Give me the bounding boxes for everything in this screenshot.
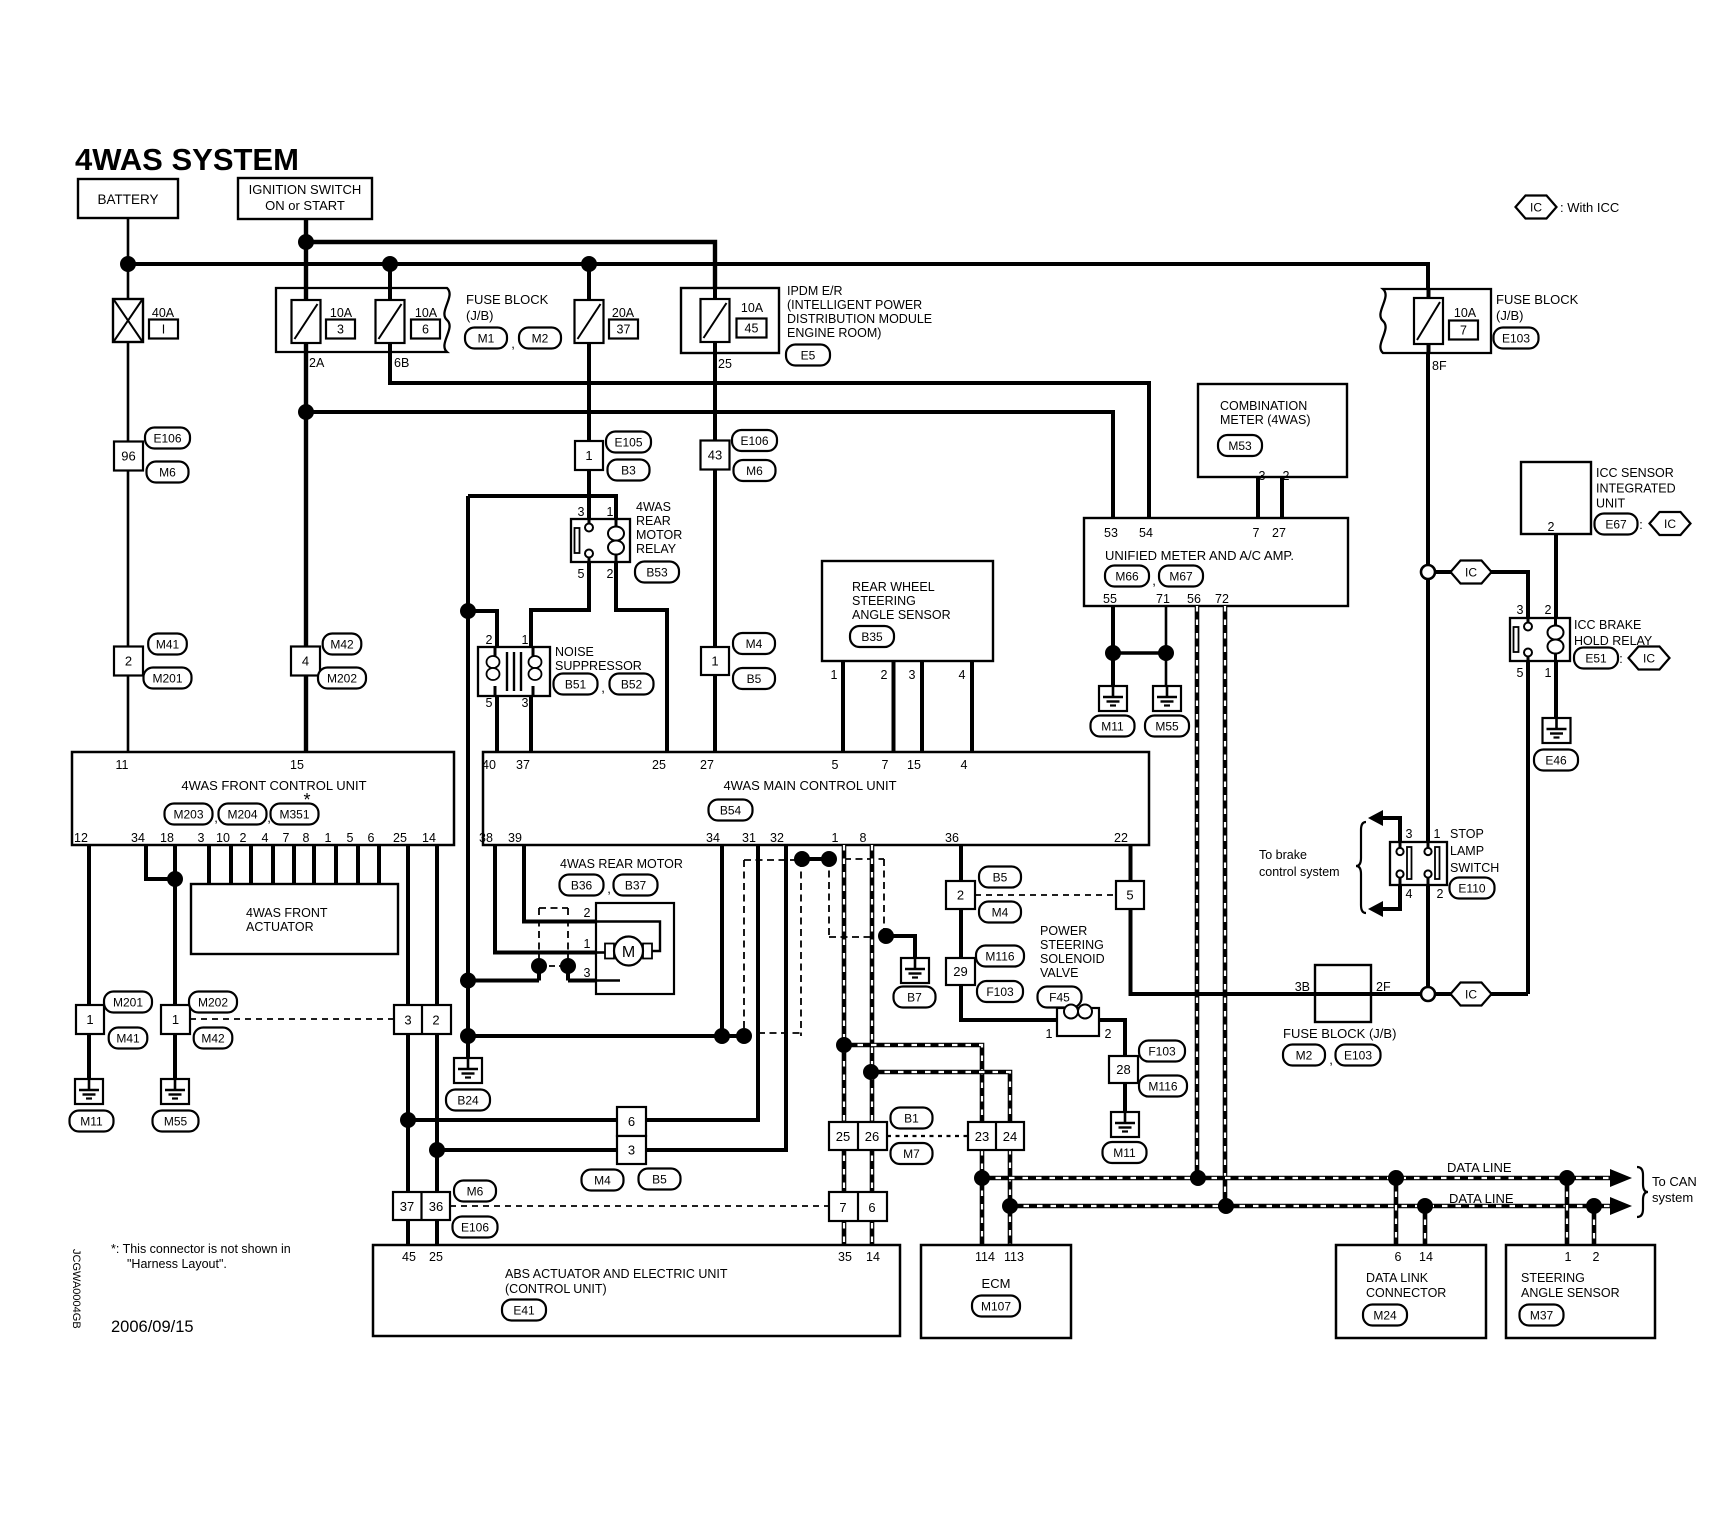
- svg-text:E46: E46: [1545, 753, 1567, 767]
- stop lamp arrow top: [1368, 810, 1400, 842]
- svg-text:2006/09/15: 2006/09/15: [111, 1318, 194, 1336]
- svg-text:1: 1: [585, 448, 592, 463]
- svg-text:4WAS FRONT CONTROL UNIT: 4WAS FRONT CONTROL UNIT: [181, 778, 366, 793]
- svg-text:E41: E41: [513, 1303, 535, 1317]
- svg-text:E51: E51: [1585, 651, 1607, 665]
- wire ignition feed vertical: [304, 219, 308, 752]
- label 6B: [394, 356, 409, 370]
- junction motor3 right: [560, 958, 576, 974]
- svg-text:1: 1: [1545, 666, 1552, 680]
- svg-text:32: 32: [770, 831, 784, 845]
- svg-text:25: 25: [652, 758, 666, 772]
- svg-text:,: ,: [607, 881, 611, 896]
- svg-text:REAR: REAR: [636, 514, 671, 528]
- svg-text:"Harness Layout".: "Harness Layout".: [127, 1257, 227, 1271]
- junction data2 meter: [1218, 1198, 1234, 1214]
- junction bus fuse37: [581, 256, 597, 272]
- svg-text:4: 4: [1406, 887, 1413, 901]
- svg-text:*: This connector is not shown: *: This connector is not shown in: [111, 1242, 291, 1256]
- svg-text:1: 1: [325, 831, 332, 845]
- relay B53 4WAS rear motor relay: [571, 519, 630, 562]
- colon E67: [1639, 518, 1642, 532]
- front unit bottom pin labels: [74, 831, 436, 845]
- svg-text:34: 34: [131, 831, 145, 845]
- svg-text:3: 3: [1406, 827, 1413, 841]
- svg-text:2F: 2F: [1376, 980, 1391, 994]
- svg-text:4: 4: [959, 668, 966, 682]
- svg-text:INTEGRATED: INTEGRATED: [1596, 482, 1676, 496]
- connector B35: [850, 626, 894, 647]
- ground M11 left: [70, 1079, 114, 1132]
- svg-text:POWER: POWER: [1040, 924, 1087, 938]
- svg-text:35: 35: [838, 1250, 852, 1264]
- can branch DLC14: [1423, 1206, 1428, 1245]
- svg-text:3: 3: [1517, 603, 1524, 617]
- wire coil-return / B24 trunk: [466, 496, 470, 1058]
- junction can pin1: [836, 1037, 852, 1053]
- svg-text:F103: F103: [986, 985, 1014, 999]
- svg-text:45: 45: [402, 1250, 416, 1264]
- svg-text:37: 37: [516, 758, 530, 772]
- connector M4 lower: [582, 1170, 624, 1191]
- junction trunk NS: [460, 603, 476, 619]
- connector 2 B5 M4: [946, 867, 1021, 923]
- combination meter M53: [1198, 384, 1347, 477]
- svg-text:11: 11: [116, 758, 129, 772]
- wire front 34 to 18: [146, 845, 175, 879]
- svg-text:26: 26: [865, 1129, 879, 1144]
- svg-text:38: 38: [479, 831, 493, 845]
- junction can pin8: [863, 1064, 879, 1080]
- label 25: [718, 357, 732, 371]
- svg-text:ABS ACTUATOR AND ELECTRIC UNIT: ABS ACTUATOR AND ELECTRIC UNIT: [505, 1267, 728, 1281]
- wire relay1 to ground E46: [1554, 661, 1558, 718]
- svg-text:M11: M11: [1113, 1146, 1136, 1160]
- main unit bottom pin labels: [479, 831, 1128, 845]
- shield tie hexdots: [794, 851, 837, 867]
- svg-text:2: 2: [881, 668, 888, 682]
- junction bus fuse6: [382, 256, 398, 272]
- dotted link 26 to 23: [887, 1135, 968, 1137]
- svg-text:8F: 8F: [1432, 359, 1447, 373]
- connector 25|26 B1 M7: [829, 1108, 933, 1165]
- connector 1 E105 B3: [575, 432, 651, 481]
- wire 22 to fuse block 3B: [1131, 845, 1316, 994]
- stop lamp arrow bottom: [1368, 885, 1400, 917]
- noise suppressor B51 B52: [478, 647, 550, 696]
- svg-text:M6: M6: [746, 464, 763, 478]
- label 2A: [309, 356, 325, 370]
- svg-text:STEERING: STEERING: [1521, 1271, 1585, 1285]
- svg-text:5: 5: [832, 758, 839, 772]
- main unit top pin labels: [482, 758, 967, 772]
- svg-text:(INTELLIGENT POWER: (INTELLIGENT POWER: [787, 298, 922, 312]
- svg-text:SUPPRESSOR: SUPPRESSOR: [555, 659, 642, 673]
- ignition switch: [238, 178, 372, 219]
- connector 4 M42 M202: [291, 634, 366, 689]
- svg-text:,: ,: [1152, 573, 1156, 588]
- unified meter top pin labels: [1104, 526, 1286, 540]
- dashed link 36 to 7: [450, 1205, 829, 1207]
- svg-text:1: 1: [832, 831, 839, 845]
- svg-text:M1: M1: [478, 331, 495, 345]
- connector E67: [1595, 514, 1638, 535]
- svg-text:96: 96: [121, 449, 135, 464]
- svg-text:37: 37: [617, 323, 631, 337]
- svg-text:M204: M204: [227, 807, 257, 821]
- connector M37: [1520, 1305, 1564, 1326]
- svg-text:M4: M4: [594, 1173, 611, 1187]
- label ICC BRAKE HOLD RELAY: [1574, 618, 1653, 648]
- ABS actuator and electric unit E41: [373, 1245, 900, 1336]
- brace to CAN: [1637, 1167, 1648, 1217]
- svg-text:ON or START: ON or START: [265, 198, 345, 213]
- svg-text:E103: E103: [1502, 331, 1530, 345]
- can wire meter72: [1223, 606, 1228, 1206]
- connector M204: [219, 804, 267, 825]
- colon E51: [1619, 652, 1622, 666]
- svg-text:71: 71: [1156, 592, 1170, 606]
- fuse 10A 7: [1414, 298, 1478, 344]
- svg-text:5: 5: [578, 567, 585, 581]
- open circle top: [1421, 565, 1435, 579]
- svg-text:10A: 10A: [415, 306, 438, 320]
- wire main34: [720, 845, 724, 1036]
- label IPDM text: [787, 284, 932, 340]
- svg-text:F103: F103: [1148, 1044, 1176, 1058]
- svg-text:8: 8: [860, 831, 867, 845]
- svg-text:B35: B35: [861, 630, 883, 644]
- svg-text:1: 1: [711, 654, 718, 669]
- ICC relay pin labels: [1517, 603, 1552, 680]
- svg-text:1: 1: [584, 937, 591, 951]
- svg-text:STEERING: STEERING: [852, 594, 916, 608]
- svg-text:M37: M37: [1530, 1308, 1554, 1322]
- connector 28 F103 M116: [1109, 1041, 1187, 1097]
- junction motor3 left: [531, 958, 547, 974]
- junction ground tie 71: [1158, 645, 1174, 661]
- svg-text:To CAN: To CAN: [1652, 1174, 1697, 1189]
- svg-text:M66: M66: [1115, 569, 1139, 583]
- svg-text:28: 28: [1116, 1062, 1130, 1077]
- ground M55 left: [153, 1079, 199, 1132]
- svg-text:DATA LINE: DATA LINE: [1447, 1160, 1512, 1175]
- svg-text:23: 23: [975, 1129, 989, 1144]
- svg-text:4WAS MAIN CONTROL UNIT: 4WAS MAIN CONTROL UNIT: [723, 778, 896, 793]
- svg-text:E5: E5: [801, 348, 816, 362]
- svg-text:M55: M55: [164, 1114, 188, 1128]
- can branch DLC6: [1394, 1178, 1399, 1245]
- relay pin labels: [578, 505, 614, 581]
- svg-text:34: 34: [706, 831, 720, 845]
- svg-text:72: 72: [1215, 592, 1229, 606]
- svg-text:IPDM E/R: IPDM E/R: [787, 284, 843, 298]
- connector 3|2: [394, 1005, 451, 1034]
- wire main39 to motor2: [524, 845, 596, 922]
- svg-text:UNIFIED METER AND A/C AMP.: UNIFIED METER AND A/C AMP.: [1105, 548, 1294, 563]
- svg-text:6B: 6B: [394, 356, 409, 370]
- svg-text:36: 36: [945, 831, 959, 845]
- label 4WAS MAIN CONTROL UNIT: [723, 778, 896, 793]
- comb meter pin labels: [1259, 469, 1290, 483]
- wire NS3 to main37: [529, 696, 533, 752]
- can branch SAS2: [1592, 1206, 1597, 1245]
- label STOP LAMP SWITCH: [1450, 827, 1499, 875]
- svg-text:M7: M7: [903, 1147, 920, 1161]
- comma B36 B37: [607, 881, 611, 896]
- connector 5: [1116, 881, 1144, 909]
- hex IC top branch: [1451, 561, 1492, 584]
- wires front unit to actuator: [209, 845, 379, 884]
- junction ignition y242: [298, 234, 314, 250]
- svg-text:53: 53: [1104, 526, 1118, 540]
- shield dash pin1 to B7: [844, 859, 884, 936]
- can data line 2: [1010, 1197, 1632, 1215]
- svg-text:37: 37: [400, 1199, 414, 1214]
- svg-text:ICC SENSOR: ICC SENSOR: [1596, 466, 1674, 480]
- 4WAS front actuator: [191, 884, 398, 954]
- svg-text:3: 3: [628, 1143, 635, 1158]
- connector M1: [465, 328, 507, 349]
- svg-text:M4: M4: [992, 905, 1009, 919]
- svg-text:M116: M116: [1148, 1079, 1177, 1093]
- svg-text:6: 6: [628, 1114, 635, 1129]
- junction B7: [878, 928, 894, 944]
- connector E41: [502, 1300, 546, 1321]
- wire ICC sensor pin2: [1554, 534, 1558, 618]
- svg-text:LAMP: LAMP: [1450, 844, 1484, 858]
- svg-text:1: 1: [522, 633, 529, 647]
- svg-text:B37: B37: [625, 878, 647, 892]
- svg-text:ANGLE SENSOR: ANGLE SENSOR: [852, 608, 951, 622]
- svg-text:10A: 10A: [330, 306, 353, 320]
- svg-text:56: 56: [1187, 592, 1201, 606]
- svg-text:M42: M42: [201, 1031, 225, 1045]
- svg-text:7: 7: [1460, 324, 1467, 338]
- connector M2: [519, 328, 561, 349]
- svg-text:M6: M6: [159, 465, 176, 479]
- svg-text:5: 5: [1126, 888, 1133, 903]
- svg-text:,: ,: [214, 810, 218, 825]
- svg-text:1: 1: [86, 1012, 93, 1027]
- svg-text:4: 4: [961, 758, 968, 772]
- connector M24: [1363, 1305, 1407, 1326]
- wire main32: [437, 845, 786, 1150]
- svg-text:8: 8: [303, 831, 310, 845]
- connector M107: [972, 1296, 1020, 1317]
- svg-text:B24: B24: [457, 1093, 479, 1107]
- svg-text:,: ,: [601, 680, 605, 695]
- svg-text:FUSE BLOCK: FUSE BLOCK: [466, 292, 549, 307]
- svg-text:I: I: [162, 323, 165, 337]
- svg-text:B52: B52: [621, 677, 643, 691]
- svg-text:14: 14: [1419, 1250, 1433, 1264]
- svg-text:2: 2: [584, 906, 591, 920]
- svg-text:7: 7: [283, 831, 290, 845]
- svg-text:M67: M67: [1169, 569, 1193, 583]
- open circle bottom: [1421, 987, 1435, 1001]
- wire ground tie: [1113, 651, 1166, 654]
- connector 3 lower: [617, 1136, 646, 1164]
- svg-text:2: 2: [1593, 1250, 1600, 1264]
- connector 23|24: [968, 1122, 1024, 1150]
- svg-text:E110: E110: [1458, 881, 1485, 895]
- svg-text:E106: E106: [461, 1220, 489, 1234]
- svg-text:14: 14: [866, 1250, 880, 1264]
- connector 29 M116 F103: [946, 946, 1024, 1003]
- svg-text:2: 2: [240, 831, 247, 845]
- motor 4WAS rear motor: [596, 903, 674, 994]
- svg-text:IC: IC: [1664, 517, 1676, 531]
- svg-text:CONNECTOR: CONNECTOR: [1366, 1286, 1446, 1300]
- svg-text:M11: M11: [80, 1114, 103, 1128]
- wire front 25 down: [406, 845, 410, 1245]
- svg-text:1: 1: [831, 668, 838, 682]
- svg-text:43: 43: [708, 448, 722, 463]
- junction data1 meter: [1190, 1170, 1206, 1186]
- connector B37: [614, 875, 658, 896]
- svg-text:1: 1: [1046, 1027, 1053, 1041]
- svg-text:1: 1: [1565, 1250, 1572, 1264]
- junction ground tie 55: [1105, 645, 1121, 661]
- svg-text:113: 113: [1004, 1250, 1024, 1264]
- wire IC branch to relay3: [1435, 572, 1528, 618]
- 4WAS main control unit B54: [483, 752, 1149, 845]
- svg-text:7: 7: [1253, 526, 1260, 540]
- connector B51: [554, 674, 598, 695]
- svg-text:3: 3: [337, 323, 344, 337]
- ground M11 unified: [1091, 686, 1135, 737]
- svg-text:COMBINATION: COMBINATION: [1220, 399, 1307, 413]
- ground M55 unified: [1145, 686, 1189, 737]
- connector M67: [1159, 566, 1203, 587]
- svg-text:BATTERY: BATTERY: [97, 192, 158, 207]
- ground M11 solenoid: [1103, 1112, 1147, 1163]
- svg-text:2: 2: [1105, 1027, 1112, 1041]
- connector M351: [271, 804, 319, 825]
- svg-text:M41: M41: [116, 1031, 140, 1045]
- svg-text:ICC BRAKE: ICC BRAKE: [1574, 618, 1641, 632]
- dashed link 2 to 5: [975, 894, 1116, 896]
- fuse block J/B left: [276, 288, 450, 352]
- svg-text:SWITCH: SWITCH: [1450, 861, 1499, 875]
- wire fuse3 output y=412 to unified meter 53: [306, 412, 1113, 518]
- svg-text:4WAS SYSTEM: 4WAS SYSTEM: [75, 142, 299, 177]
- svg-text:4WAS: 4WAS: [636, 500, 671, 514]
- svg-text:M201: M201: [113, 995, 143, 1009]
- connector 7|6: [829, 1192, 887, 1221]
- svg-text:IC: IC: [1643, 651, 1655, 665]
- svg-text:IC: IC: [1530, 200, 1542, 214]
- svg-text:6: 6: [422, 323, 429, 337]
- shield dash rect 31-32: [744, 860, 801, 1036]
- label NOISE SUPPRESSOR: [555, 645, 642, 673]
- svg-text:6: 6: [368, 831, 375, 845]
- shield dash rear motor connector: [539, 908, 568, 966]
- fuse 10A 3: [292, 300, 356, 343]
- 4WAS front control unit M203 M204 M351: [72, 752, 454, 845]
- label FUSE BLOCK J/B right: [1496, 292, 1579, 323]
- sensor wires to main unit: [843, 661, 972, 752]
- svg-text:3: 3: [578, 505, 585, 519]
- svg-text:27: 27: [1272, 526, 1286, 540]
- can wire meter56: [1195, 606, 1200, 1178]
- svg-text:1: 1: [607, 505, 614, 519]
- svg-text:NOISE: NOISE: [555, 645, 594, 659]
- asterisk: [303, 790, 310, 810]
- svg-text:(CONTROL UNIT): (CONTROL UNIT): [505, 1282, 607, 1296]
- svg-text:E103: E103: [1344, 1048, 1372, 1062]
- unified meter bottom pin labels: [1103, 592, 1229, 606]
- junction pin34 y1036: [714, 1028, 730, 1044]
- connector F45: [1038, 987, 1082, 1008]
- svg-text:ECM: ECM: [982, 1276, 1011, 1291]
- svg-text:2: 2: [1548, 520, 1555, 534]
- svg-text:B53: B53: [646, 565, 668, 579]
- svg-text:M: M: [622, 944, 635, 961]
- comma M203: [214, 810, 218, 825]
- svg-text:M202: M202: [327, 671, 357, 685]
- svg-text:: With ICC: : With ICC: [1560, 200, 1619, 215]
- junction battery bus at battery: [120, 256, 136, 272]
- svg-text:,: ,: [1329, 1052, 1333, 1067]
- label REAR WHEEL STEERING ANGLE SENSOR: [852, 580, 951, 622]
- svg-text:M201: M201: [152, 671, 182, 685]
- label POWER STEERING SOLENOID VALVE: [1040, 924, 1105, 980]
- svg-text:3: 3: [584, 966, 591, 980]
- junction data2 SAS: [1586, 1198, 1602, 1214]
- svg-text:E106: E106: [740, 434, 768, 448]
- svg-text:To brake: To brake: [1259, 848, 1307, 862]
- fuse 20A 37: [575, 300, 639, 343]
- svg-text:7: 7: [882, 758, 889, 772]
- svg-text:(J/B): (J/B): [1496, 308, 1523, 323]
- junction data1 DLC: [1388, 1170, 1404, 1186]
- svg-text:40A: 40A: [152, 306, 175, 320]
- svg-text:M116: M116: [985, 949, 1014, 963]
- junction trunk y1036: [460, 1028, 476, 1044]
- comma M204: [267, 810, 271, 825]
- connector M2 bottom: [1283, 1045, 1325, 1066]
- motor pin labels: [584, 906, 591, 980]
- svg-text:10: 10: [216, 831, 230, 845]
- wire NS5 to main40: [495, 696, 499, 752]
- wire relay5 to NS1: [531, 562, 589, 647]
- svg-text:ANGLE SENSOR: ANGLE SENSOR: [1521, 1286, 1620, 1300]
- junction 31 front25: [400, 1112, 416, 1128]
- svg-text:25: 25: [836, 1129, 850, 1144]
- svg-text:E106: E106: [153, 431, 181, 445]
- svg-text:M107: M107: [981, 1299, 1011, 1313]
- svg-text:39: 39: [508, 831, 522, 845]
- label FUSE BLOCK J/B bottom: [1283, 1026, 1396, 1041]
- svg-text::: :: [1619, 652, 1622, 666]
- svg-text:55: 55: [1103, 592, 1117, 606]
- junction data2 ecm: [1002, 1198, 1018, 1214]
- svg-text:2: 2: [607, 567, 614, 581]
- label 4WAS REAR MOTOR RELAY: [636, 500, 682, 556]
- svg-text:12: 12: [74, 831, 88, 845]
- svg-text:4: 4: [262, 831, 269, 845]
- svg-text:B54: B54: [720, 803, 742, 817]
- svg-text:10A: 10A: [741, 301, 764, 315]
- svg-text:IGNITION SWITCH: IGNITION SWITCH: [249, 182, 362, 197]
- svg-text:FUSE BLOCK: FUSE BLOCK: [1496, 292, 1579, 307]
- comma M2 E103: [1329, 1052, 1333, 1067]
- sensor pin labels: [831, 668, 966, 682]
- ground B7: [894, 958, 936, 1008]
- svg-text:B36: B36: [571, 878, 593, 892]
